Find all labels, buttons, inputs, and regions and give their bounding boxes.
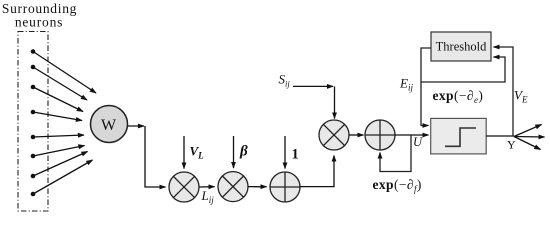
neuron dot 6 (31, 154, 36, 159)
step glyph (445, 128, 476, 146)
svg-text:VE: VE (514, 88, 528, 105)
wire M3 to A2 (349, 134, 364, 136)
svg-text:1: 1 (292, 147, 299, 163)
wire A1 up to M3 (300, 156, 334, 187)
input arrow V_L (183, 136, 185, 169)
arrow dot6 to W (33, 146, 85, 157)
arrow dot1 to W (33, 52, 96, 94)
wire Y output (486, 135, 514, 137)
svg-text:exp(−∂e): exp(−∂e) (433, 88, 484, 105)
adder A1 (270, 172, 300, 202)
wire V_E up into threshold (494, 47, 514, 136)
arrow dot7 to W (33, 152, 88, 177)
wire threshold output E: left and down to step box (421, 48, 431, 126)
decay loop exp(-d_e): from E line right and up into threshold box (421, 57, 505, 82)
wire W output horizontal with arrow at corner (128, 125, 144, 127)
multiplier M1 (169, 172, 199, 202)
wire S_ij horizontal with arrow at corner (293, 85, 333, 87)
wire M1 to M2 (199, 186, 215, 188)
svg-text:Threshold: Threshold (436, 40, 487, 54)
output fan arrow mid (514, 136, 545, 139)
arrow dot5 to W (33, 135, 84, 137)
output fan arrow up (514, 125, 542, 137)
feedback loop exp(-d_f) (380, 135, 411, 172)
svg-text:Y: Y (507, 138, 516, 152)
svg-text:Sij: Sij (279, 72, 291, 89)
svg-text:Eij: Eij (399, 76, 413, 93)
multiplier M2 (218, 172, 248, 202)
svg-text:Lij: Lij (201, 188, 215, 205)
svg-text:neurons: neurons (15, 15, 63, 30)
arrow dot3 to W (33, 87, 83, 112)
svg-text:W: W (101, 117, 117, 134)
wire S corner down into M3 (334, 86, 336, 118)
svg-text:U: U (413, 135, 423, 149)
multiplier M3 (319, 120, 349, 150)
adder A2 (365, 120, 395, 150)
neuron dot 2 (31, 65, 36, 70)
input arrow 1 (284, 136, 286, 169)
arrow dot8 to W (33, 160, 93, 194)
neuron dot 3 (31, 85, 36, 90)
svg-text:β: β (239, 144, 248, 160)
input arrow beta (233, 136, 235, 168)
neuron dot 8 (31, 192, 36, 197)
arrow dot4 to W (33, 112, 82, 121)
wire M2 to A1 (248, 186, 267, 188)
wire A2 to step box (U line) (395, 134, 429, 136)
dash-dot box of surrounding neurons (18, 32, 48, 212)
neuron dot 5 (31, 135, 36, 140)
neuron dot 1 (31, 49, 36, 54)
neuron dot 4 (31, 110, 36, 115)
arrow dot2 to W (33, 67, 87, 100)
svg-text:exp(−∂f): exp(−∂f) (373, 177, 422, 194)
weight circle W (91, 106, 128, 143)
wire corner down (145, 126, 166, 187)
output fan arrow down (514, 137, 541, 150)
threshold box (431, 32, 491, 61)
step function box (431, 118, 487, 153)
neuron dot 7 (31, 174, 36, 179)
svg-text:VL: VL (190, 144, 205, 161)
